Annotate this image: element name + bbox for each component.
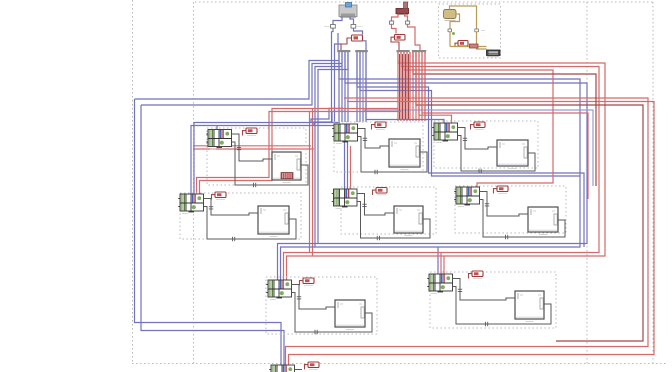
wire zone A return (232, 142, 309, 187)
zone H controller block (469, 271, 484, 279)
zone E thermostatic valve manifold (432, 123, 457, 143)
wire red column 410 bottom loop inner (289, 52, 655, 372)
blue bundle top cap right (355, 50, 368, 52)
wire bright repaint right red bundle columns (412, 52, 414, 74)
wire blue stub into zone D valve right (347, 142, 349, 189)
wire lavender column 363 (363, 52, 593, 186)
wire red column 419 into zone E valve (419, 52, 452, 124)
wire red column 422 (422, 52, 588, 199)
blue bundle top cap left (337, 50, 350, 52)
zone B thermostatic valve manifold (178, 194, 203, 214)
wire boiler left loop (450, 14, 460, 29)
zone D dashed boundary (341, 187, 436, 234)
pump source block (red circuit) (396, 2, 409, 15)
wire zone A blue pair right extension upper (311, 122, 340, 124)
zone E dashed boundary (434, 121, 538, 168)
zone C dashed boundary (334, 122, 423, 172)
wire red branch to zone G valve left (284, 253, 310, 281)
wire blue bus left descent outer (135, 99, 282, 372)
wire red band left extension upper (313, 108, 399, 110)
wire zone G return (292, 293, 373, 335)
wire bottom zone stub (295, 369, 303, 371)
zone G thermostatic valve manifold (266, 280, 291, 300)
wire red stub into zone D valve (350, 146, 352, 189)
boiler green sensor dot (452, 32, 455, 35)
wire zone F supply (480, 192, 529, 217)
wire dark-red column 413 (413, 52, 596, 186)
wire dark-red column 416 right descent (416, 52, 643, 341)
wire zone E supply (458, 128, 498, 150)
zone A dashed boundary (207, 128, 306, 185)
wire zone B return (204, 207, 297, 242)
zone F dashed boundary (455, 186, 566, 233)
wire red column 398 long loop to zone B (200, 52, 606, 256)
wire dark filler columns left red bundle (399, 54, 401, 119)
wire boiler bottom run (450, 46, 487, 48)
dashed model boundary bottom horizontal (132, 363, 667, 365)
zone A room block (272, 152, 301, 182)
wire zone A blue pair upper to zone B (194, 108, 343, 194)
wire zone B supply (204, 199, 259, 216)
wire blue source left branch (324, 17, 342, 51)
bottom zone controller block (305, 362, 320, 370)
wire zone C return (358, 137, 428, 175)
boiler tank block (444, 10, 457, 21)
dashed model boundary inner-left vertical (193, 2, 195, 364)
boiler port block right (475, 29, 485, 47)
boiler controller block (455, 41, 468, 48)
wire zone H supply (453, 279, 516, 301)
wire red stub into zone H valve right (443, 256, 445, 274)
wire red band left extension lower (310, 111, 402, 113)
zone F room block (528, 207, 558, 234)
wire blue bus left pair horizontal upper (135, 61, 340, 100)
wire blue stub into zone D valve left (344, 142, 346, 189)
wire zone A red pair upper (193, 145, 311, 147)
zone E room block (497, 140, 528, 168)
wire red column 425 stub (424, 52, 426, 121)
zone B room block (258, 206, 289, 236)
zone C thermostatic valve manifold (332, 124, 357, 144)
wire blue bus left descent inner (141, 105, 284, 372)
wire red column 404 to zone F valve (404, 52, 553, 187)
wire blue column 357 to zone F (357, 52, 584, 247)
wire blue column 366 into zone E valve (366, 52, 444, 124)
wire blue bundle columns full drop (338, 52, 340, 122)
zone H thermostatic valve manifold (427, 274, 452, 294)
dashed model boundary left vertical (132, 0, 134, 364)
wire zone E return (458, 136, 536, 174)
wire zone C supply (358, 129, 390, 149)
wire red branch to zone G valve right (287, 256, 313, 280)
bottom zone thermostatic valve manifold (clipped) (269, 365, 294, 372)
wire red column 407 bottom loop outer (286, 52, 649, 372)
zone G dashed boundary (266, 277, 377, 334)
wire zone G supply (292, 285, 336, 310)
zone E controller block (471, 122, 486, 130)
zone H room block (515, 291, 544, 321)
wire blue column 360 rightward (360, 52, 580, 176)
zone F controller block (494, 186, 509, 194)
wire red band left extension y98 (344, 97, 407, 99)
wire zone A blue pair lower to zone B (191, 111, 346, 194)
wire blue bus left pair horizontal lower (141, 64, 342, 106)
wire blue stub into zone H valve (437, 247, 439, 274)
controller block blue circuit (341, 35, 363, 50)
wire blue loop column 339 via right side (315, 52, 580, 247)
wire zone A blue pair right extension lower (314, 125, 340, 127)
pump source block (blue circuit) (339, 3, 357, 18)
zone D room block (394, 206, 423, 235)
zone A controller block (243, 128, 258, 136)
wire blue branch to zone G valve right (281, 247, 316, 280)
wire red stub into zone H valve left (440, 253, 442, 275)
wire zone D return (357, 202, 430, 241)
red bundle top cap right (412, 50, 426, 52)
zone D thermostatic valve manifold (332, 189, 357, 209)
wire blue source drop verticals (331, 32, 333, 123)
wire zone A red pair lower (193, 148, 314, 150)
wire zone D supply (357, 194, 394, 216)
wire zone A supply (232, 134, 273, 161)
zone C room block (389, 139, 420, 169)
zone C controller block (372, 122, 387, 130)
wire blue source to bundle (363, 41, 367, 50)
wire zone F return (480, 200, 566, 240)
boiler port block left (448, 29, 452, 47)
boiler burner block (487, 50, 501, 57)
wire blue source right branch (350, 17, 363, 35)
red bundle top cap left (397, 50, 410, 52)
wire blue stub into zone A valve (216, 126, 218, 131)
dashed model boundary inner-right vertical (586, 2, 588, 364)
dashed model boundary right vertical (652, 2, 654, 364)
wire zone H return (453, 287, 552, 327)
zone F thermostatic valve manifold (454, 187, 479, 207)
wire red band left extension y101 (347, 101, 410, 103)
zone G room block (335, 300, 365, 329)
controller block red circuit (391, 35, 405, 51)
wire red bundle columns full drop (397, 52, 399, 121)
wire boiler right down (477, 47, 487, 50)
dashed model boundary top horizontal (195, 1, 653, 3)
wire blue loop column 345 via right side (318, 52, 587, 244)
zone H dashed boundary (430, 272, 556, 328)
wire red source right branch (405, 14, 421, 50)
zone A thermostatic valve manifold (206, 130, 231, 150)
zone G controller block (300, 278, 315, 286)
wire boiler top loop (450, 6, 477, 29)
zone B dashed boundary (180, 193, 301, 239)
wire blue branch to zone G valve left (278, 244, 319, 281)
boiler aux red block (470, 44, 479, 48)
zone D controller block (373, 188, 388, 196)
zone B controller block (212, 192, 227, 200)
wire red source left branch (390, 14, 399, 34)
wire red column 401 long loop to zone B (197, 52, 600, 253)
boiler subsystem dashed boundary (439, 4, 501, 58)
